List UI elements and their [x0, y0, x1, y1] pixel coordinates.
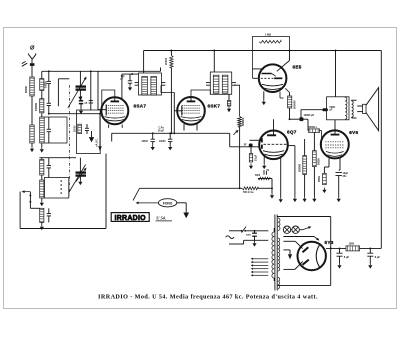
svg-text:1 MΩ: 1 MΩ [265, 33, 271, 36]
svg-text:500000: 500000 [242, 117, 245, 126]
svg-text:10000 pF: 10000 pF [304, 114, 315, 117]
svg-text:6Q7: 6Q7 [287, 130, 297, 135]
svg-text:50000: 50000 [25, 85, 28, 93]
svg-text:50 pF: 50 pF [158, 130, 165, 132]
svg-text:10 μF: 10 μF [254, 154, 257, 161]
svg-text:10000: 10000 [142, 141, 149, 143]
svg-text:6SK7: 6SK7 [208, 104, 221, 109]
svg-text:+A.V.C.: +A.V.C. [96, 138, 99, 147]
svg-text:50000: 50000 [318, 158, 321, 165]
svg-text:IRRADIO: IRRADIO [115, 215, 147, 222]
svg-text:15: 15 [84, 101, 87, 105]
svg-text:20000: 20000 [164, 57, 168, 65]
svg-text:8 μF: 8 μF [375, 255, 381, 259]
svg-text:500 Ω 1w: 500 Ω 1w [243, 191, 254, 194]
svg-text:U 54.: U 54. [156, 216, 166, 221]
svg-text:6V6: 6V6 [349, 130, 358, 135]
svg-text:20000: 20000 [75, 125, 77, 132]
svg-text:C.Pa: C.Pa [159, 127, 165, 129]
svg-text:25v: 25v [343, 175, 348, 178]
svg-text:50000 +: 50000 + [309, 126, 319, 129]
svg-text:1000: 1000 [349, 243, 355, 246]
svg-text:5000: 5000 [246, 235, 252, 237]
svg-text:8 μF: 8 μF [344, 255, 350, 259]
svg-text:FONO: FONO [163, 201, 173, 205]
svg-text:pF: pF [330, 109, 334, 112]
svg-text:6E5: 6E5 [293, 65, 302, 70]
svg-text:IRRADIO - Mod. U 54. Media fre: IRRADIO - Mod. U 54. Media frequenza 467… [98, 295, 318, 301]
svg-text:5Y3: 5Y3 [325, 240, 334, 245]
svg-text:510000: 510000 [35, 102, 38, 111]
svg-text:5000: 5000 [255, 175, 261, 177]
svg-text:500000: 500000 [293, 100, 297, 109]
svg-text:10000: 10000 [159, 141, 166, 143]
svg-text:250Ω: 250Ω [318, 176, 321, 182]
svg-text:3F: 3F [244, 144, 247, 147]
svg-text:250000: 250000 [299, 163, 302, 172]
svg-text:6SA7: 6SA7 [134, 104, 147, 109]
